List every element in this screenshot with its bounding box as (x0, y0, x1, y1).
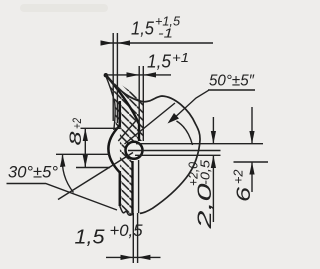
blade cross-section body (hatched) (105, 74, 143, 215)
dimension line 1,5 +0,5 (106, 256, 161, 258)
arc arrowhead up (60, 155, 65, 167)
svg-text:2,0: 2,0 (195, 183, 216, 230)
wire line middle (128, 150, 221, 152)
dimension 2,0 upper segment (212, 117, 214, 144)
arrow right of 1,5+1 (144, 72, 157, 77)
arrow down 6 (249, 131, 254, 144)
construction line D1 (58, 153, 133, 200)
30 degree reference line (56, 153, 110, 155)
blade tip blob (104, 73, 108, 77)
bottom guide line pair (133, 213, 137, 263)
arrow up 8+2 (83, 128, 88, 141)
dimension line 1,5 +1,5/-1 (101, 42, 214, 44)
construction line D2 (125, 103, 176, 144)
arrow left of 1,5+1 (127, 72, 140, 77)
leader arrowhead (168, 113, 180, 124)
extension lines of 8+2 (76, 128, 120, 167)
svg-text:+2: +2 (232, 169, 246, 184)
wavy break edge at bottom (120, 206, 133, 215)
arrow down 2,0 (211, 131, 216, 144)
hub bore circle (126, 142, 143, 159)
dimension 6 upper segment (251, 107, 253, 144)
dimension line 8+2 (84, 128, 86, 167)
svg-text:6: 6 (234, 186, 255, 202)
faint scan ghost (20, 4, 108, 12)
svg-text:1,5: 1,5 (75, 227, 106, 249)
svg-text:8: 8 (66, 131, 85, 146)
right extension line y162 (234, 161, 269, 163)
wire line bottom (135, 154, 221, 156)
weld nugget outline (105, 75, 200, 214)
arrow up 2,0 (211, 155, 216, 168)
svg-text:-0,5: -0,5 (199, 160, 213, 185)
30 degree dimension arc (62, 155, 73, 193)
leader of 30 degrees (7, 184, 118, 211)
svg-text:+2: +2 (70, 118, 84, 129)
blade left edge lower (119, 171, 122, 206)
blade left edge (105, 74, 115, 130)
svg-text:1,5: 1,5 (147, 52, 172, 72)
blade right edge lower (131, 161, 133, 215)
50 degree dimension arc (177, 121, 193, 145)
svg-text:50°±5″: 50°±5″ (209, 73, 255, 90)
dimension line 1,5 +1 (105, 74, 171, 76)
leader of 50 degrees (172, 90, 209, 120)
wire line top (136, 143, 263, 145)
svg-text:30°±5°: 30°±5° (8, 163, 58, 182)
inner edge line below hub (138, 160, 140, 213)
svg-text:+1: +1 (172, 51, 189, 65)
arrow right bottom dim (138, 255, 151, 260)
dimension 2,0 lower segment (212, 155, 214, 222)
blade right edge upper (105, 74, 139, 141)
extension line pair second dim (139, 66, 143, 141)
construction line D3 (118, 120, 137, 142)
svg-text:1,5: 1,5 (131, 19, 155, 39)
svg-text:-1: -1 (158, 27, 173, 41)
arrow down 8+2 (83, 155, 88, 168)
svg-text:+0,5: +0,5 (110, 221, 144, 240)
arrow left bottom dim (121, 255, 134, 260)
arrow left of top dim (101, 40, 114, 45)
arrow right of top dim (118, 40, 130, 45)
hub bulge (left lens) (108, 126, 119, 173)
arrow up 6 (249, 162, 254, 175)
extension line pair top dim (113, 33, 117, 123)
dimension 6 lower segment (251, 162, 253, 192)
